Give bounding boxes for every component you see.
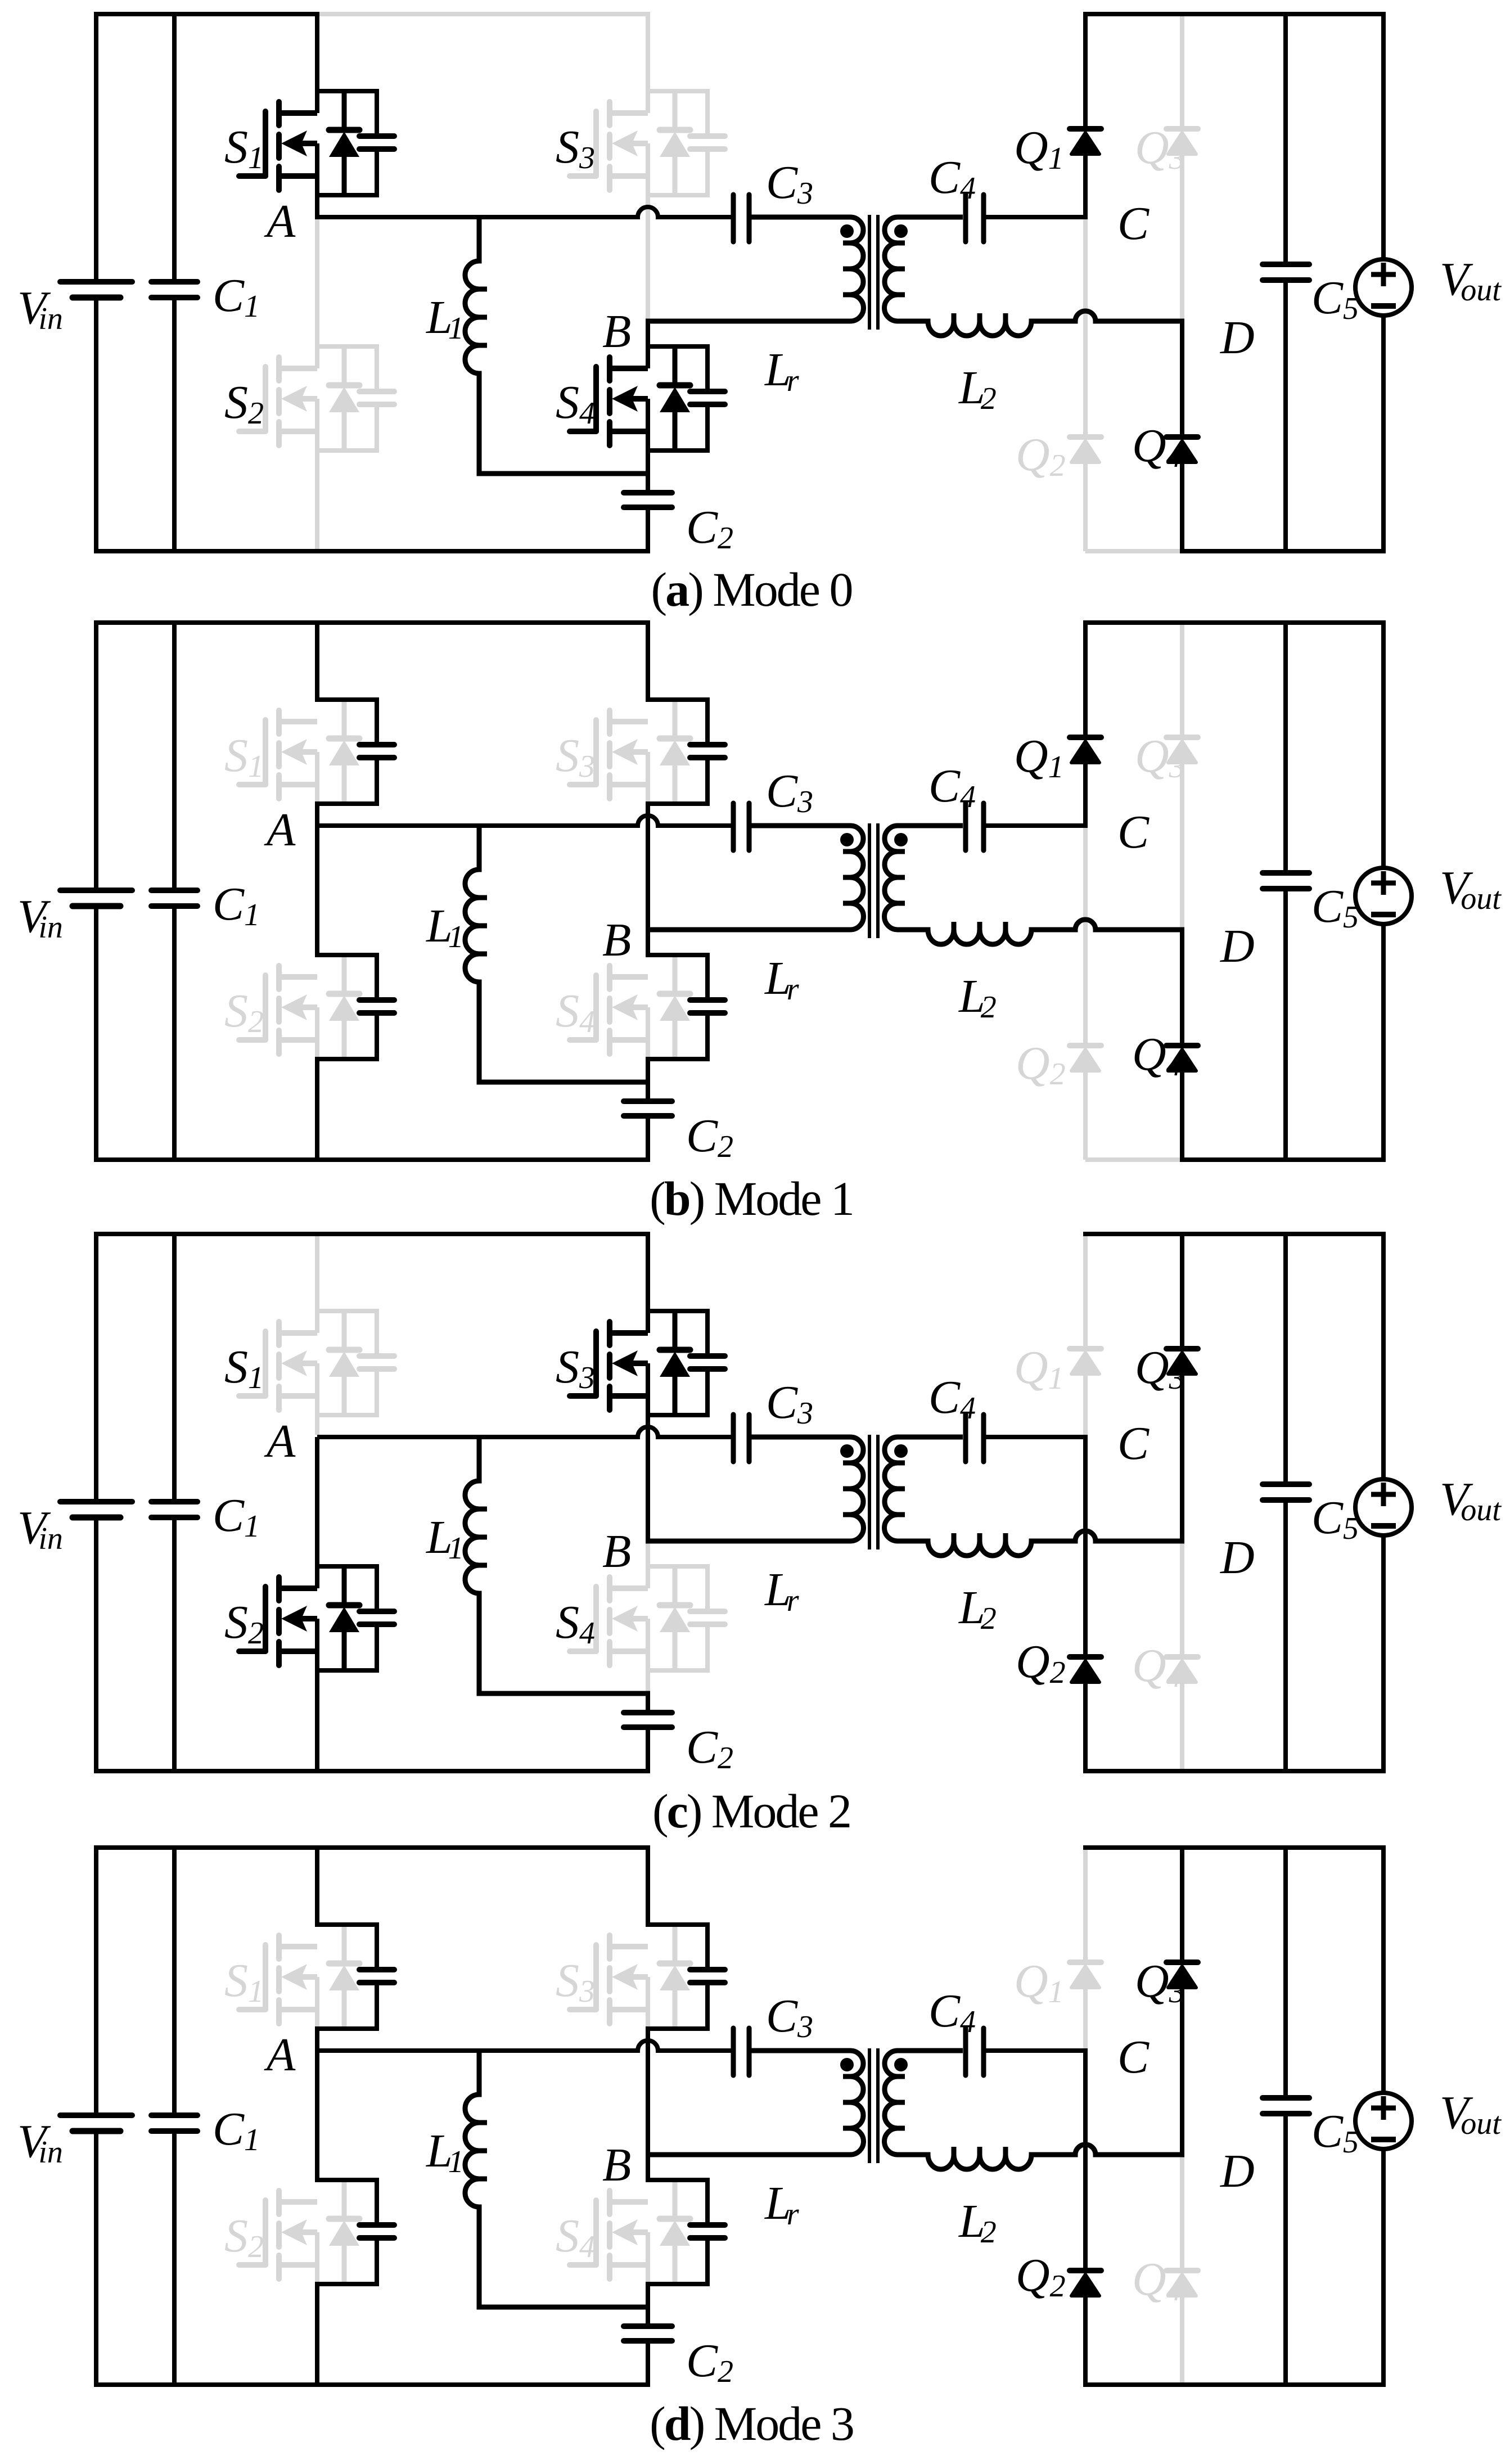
label S1 (mode 2)	[224, 1341, 264, 1395]
wire Vout branch (mode 0)	[1381, 12, 1386, 553]
svg-text:C: C	[1117, 2031, 1150, 2083]
transistor S2 channel (mode 0)	[279, 357, 317, 445]
transistor S3 channel (mode 2)	[610, 1322, 648, 1410]
wire Q3 leg (mode 1)	[1180, 623, 1184, 927]
svg-text:A: A	[264, 1415, 296, 1467]
transistor S3 gate (mode 3)	[570, 1945, 596, 2010]
label Q4 (mode 1)	[1132, 1028, 1182, 1083]
svg-text:D: D	[1220, 2145, 1255, 2197]
inductor L1 (mode 3)	[465, 2048, 650, 2307]
wire Q4 leg (mode 3)	[1180, 2157, 1184, 2387]
wire secondary bottom rail (mode 2)	[1083, 1769, 1386, 1773]
wire C4 to node C (mode 1)	[986, 823, 1088, 828]
label S4 (mode 0)	[556, 376, 595, 431]
diode Q4 (mode 1)	[1166, 1046, 1198, 1071]
inductor L2 and wire to node D with hop over Q leg (mode 3)	[898, 2145, 1184, 2169]
output capacitor frame of S3 (mode 0)	[646, 89, 725, 197]
wire C4 to node C (mode 3)	[986, 2048, 1088, 2053]
wire top rail (mode 2)	[94, 1232, 650, 1236]
label C3 (mode 0)	[766, 156, 813, 211]
diode Q3 (mode 2)	[1166, 1349, 1198, 1374]
wire top rail (mode 3)	[94, 1845, 650, 1850]
label C4 (mode 1)	[928, 760, 976, 814]
transistor S4 gate (mode 3)	[570, 2200, 596, 2265]
wire secondary top rail (mode 0)	[1083, 12, 1386, 16]
wire bottom rail (mode 3)	[94, 2382, 650, 2387]
wire bottom rail (mode 0)	[94, 549, 650, 553]
wire source leg of S2 (mode 3)	[315, 2284, 319, 2387]
label Lr (mode 2)	[764, 1564, 799, 1618]
label L1 (mode 0)	[426, 291, 464, 346]
label Vin (mode 3)	[17, 2115, 63, 2170]
wire bottom rail (mode 1)	[94, 1157, 650, 1162]
node B label (mode 1)	[602, 914, 631, 966]
transistor S1 channel (mode 2)	[279, 1322, 317, 1410]
capacitor C5 branch (mode 1)	[1263, 620, 1309, 1162]
transistor S3 gate (mode 0)	[570, 111, 596, 176]
capacitor C3 (mode 2)	[733, 1415, 749, 1462]
svg-text:B: B	[602, 914, 631, 966]
wire top rail (mode 1)	[94, 620, 650, 625]
body diode of S1 (mode 2)	[329, 1311, 359, 1415]
transistor S2 gate (mode 1)	[239, 975, 265, 1040]
capacitor C2 branch (mode 1)	[624, 1082, 672, 1162]
label S3 (mode 2)	[556, 1341, 595, 1395]
label Q2 (mode 1)	[1016, 1037, 1066, 1092]
transformer polarity dot primary (mode 1)	[840, 833, 854, 846]
wire secondary top rail (mode 1)	[1083, 620, 1386, 625]
transistor S1 channel (mode 0)	[279, 102, 317, 190]
label Q2 (mode 0)	[1016, 429, 1066, 483]
wire internal leg of S1 (gray) (mode 3)	[315, 1977, 319, 2029]
capacitor C1 (mode 2)	[151, 1502, 197, 1517]
transformer core (mode 3)	[869, 2048, 878, 2163]
wire Q3 leg (mode 3)	[1180, 1845, 1184, 2155]
label S4 (mode 3)	[556, 2210, 595, 2264]
capacitor C5 branch (mode 0)	[1263, 12, 1309, 553]
body diode of S4 (mode 0)	[660, 346, 690, 451]
label C2 (mode 1)	[686, 1110, 733, 1164]
label Lr (mode 0)	[764, 344, 799, 398]
transistor S3 channel (mode 3)	[610, 1935, 648, 2024]
label S1 (mode 1)	[224, 729, 264, 784]
node A label (mode 0)	[264, 195, 296, 247]
node D label (mode 3)	[1220, 2145, 1255, 2197]
output capacitor frame of S4 (mode 2)	[646, 1564, 725, 1673]
transformer primary winding and wire to node B (mode 0)	[646, 217, 863, 321]
transistor S4 gate (mode 0)	[570, 367, 596, 431]
transistor S2 gate (mode 3)	[239, 2200, 265, 2265]
diode Q3 (mode 3)	[1166, 1962, 1198, 1988]
wire drain leg of S2 (mode 1)	[315, 826, 319, 957]
label Vin (mode 0)	[17, 282, 63, 336]
output capacitor frame of S1 (mode 1)	[315, 697, 394, 806]
wire drain leg of S3 (gray) (mode 0)	[646, 12, 650, 113]
node C label (mode 1)	[1117, 806, 1150, 858]
label L2 (mode 1)	[958, 970, 997, 1025]
svg-text:D: D	[1220, 312, 1255, 364]
transformer polarity dot secondary (mode 0)	[894, 224, 908, 238]
inductor L2 and wire to node D with hop over Q leg (mode 1)	[898, 920, 1184, 944]
node A label (mode 2)	[264, 1415, 296, 1467]
diode Q1 (mode 0)	[1070, 129, 1101, 154]
node D label (mode 2)	[1220, 1531, 1255, 1584]
transformer core (mode 1)	[869, 823, 878, 938]
svg-text:(a) Mode 0: (a) Mode 0	[651, 562, 852, 616]
wire source leg of S4 (gray) (mode 2)	[646, 1619, 650, 1696]
wire drain leg of S2 (mode 3)	[315, 2051, 319, 2182]
wire source leg of S1 (mode 0)	[315, 143, 319, 219]
wire secondary bottom rail (mode 3)	[1083, 2382, 1386, 2387]
svg-text:(b) Mode 1: (b) Mode 1	[650, 1172, 853, 1226]
label S2 (mode 3)	[224, 2210, 264, 2264]
transformer polarity dot secondary (mode 3)	[894, 2058, 908, 2071]
svg-text:C: C	[1117, 197, 1150, 250]
node A label (mode 3)	[264, 2029, 296, 2081]
label L1 (mode 1)	[426, 900, 464, 954]
label Q1 (mode 0)	[1014, 121, 1064, 176]
wire C1 branch (mode 0)	[172, 12, 177, 553]
battery Vin (mode 2)	[60, 1502, 132, 1517]
wire drain leg of S3 (mode 1)	[646, 620, 650, 702]
wire Vout branch (mode 2)	[1381, 1232, 1386, 1773]
label S4 (mode 1)	[556, 985, 595, 1039]
diode Q2 (mode 2)	[1070, 1657, 1101, 1682]
inductor L1 (mode 2)	[465, 1435, 650, 1693]
transformer core (mode 0)	[869, 215, 878, 330]
source Vout (mode 3)	[1355, 2093, 1412, 2149]
label S2 (mode 1)	[224, 985, 264, 1039]
wire source leg of S3 (mode 1)	[646, 804, 650, 930]
wire secondary bottom link (gray) (mode 1)	[1085, 1157, 1182, 1162]
wire node A to C3 with hop over S3 leg (mode 3)	[317, 2040, 731, 2051]
label C1 (mode 2)	[213, 1489, 260, 1544]
wire Vin branch (mode 2)	[94, 1232, 98, 1773]
capacitor C3 (mode 1)	[733, 803, 749, 850]
svg-text:(d) Mode 3: (d) Mode 3	[650, 2397, 853, 2451]
capacitor C1 (mode 0)	[151, 282, 197, 298]
source Vout (mode 2)	[1355, 1479, 1412, 1535]
label Q2 (mode 2)	[1016, 1636, 1066, 1690]
caption (a) Mode 0 (mode 0)	[651, 562, 852, 616]
wire secondary bottom rail (mode 0)	[1180, 549, 1386, 553]
wire Q3 leg (mode 0)	[1180, 14, 1184, 319]
wire source leg of S3 (mode 3)	[646, 2029, 650, 2155]
body diode of S2 (mode 1)	[329, 955, 359, 1059]
wire drain leg of S4 (mode 0)	[646, 319, 650, 368]
source Vout (mode 1)	[1355, 868, 1412, 924]
wire secondary top rail (mode 2)	[1083, 1232, 1386, 1236]
wire drain leg of S1 (mode 1)	[315, 620, 319, 702]
label S3 (mode 1)	[556, 729, 595, 784]
transformer polarity dot primary (mode 0)	[840, 224, 854, 238]
label S2 (mode 0)	[224, 376, 264, 431]
transistor S3 channel (mode 0)	[610, 102, 648, 190]
transistor S2 gate (mode 2)	[239, 1587, 265, 1651]
caption (b) Mode 1 (mode 1)	[650, 1172, 853, 1226]
wire internal leg of S3 (gray) (mode 3)	[646, 1977, 650, 2029]
wire Vout branch (mode 3)	[1381, 1845, 1386, 2387]
transistor S2 channel (mode 2)	[279, 1577, 317, 1665]
transformer secondary winding and wire to C4 (mode 2)	[885, 1437, 963, 1541]
wire Q1 leg (mode 2)	[1083, 1232, 1088, 1435]
label C2 (mode 0)	[686, 501, 733, 556]
label Lr (mode 3)	[764, 2177, 799, 2232]
wire node A to C3 with hop over S3 leg (mode 1)	[317, 816, 731, 826]
svg-text:B: B	[602, 305, 631, 358]
wire drain leg of S4 (mode 3)	[646, 2152, 650, 2182]
capacitor C3 (mode 0)	[733, 195, 749, 242]
wire drain leg of S4 (gray) (mode 2)	[646, 1543, 650, 1588]
label L1 (mode 2)	[426, 1511, 464, 1566]
body diode of S2 (mode 2)	[329, 1566, 359, 1670]
diode Q2 (mode 1)	[1070, 1046, 1101, 1071]
label Q1 (mode 1)	[1014, 730, 1064, 785]
diode Q4 (mode 2)	[1166, 1657, 1198, 1682]
capacitor C3 (mode 3)	[733, 2028, 749, 2075]
body diode of S2 (mode 3)	[329, 2180, 359, 2284]
wire drain leg of S1 (mode 3)	[315, 1845, 319, 1927]
transistor S3 gate (mode 2)	[570, 1331, 596, 1396]
label C2 (mode 3)	[686, 2335, 733, 2389]
transistor S4 channel (mode 2)	[610, 1577, 648, 1665]
body diode of S4 (mode 3)	[660, 2180, 690, 2284]
label C5 (mode 0)	[1311, 272, 1359, 326]
capacitor C1 (mode 1)	[151, 890, 197, 906]
transistor S3 gate (mode 1)	[570, 720, 596, 785]
wire source leg of S3 (gray) (mode 0)	[646, 143, 650, 319]
label Q1 (mode 2)	[1014, 1341, 1064, 1396]
wire secondary bottom rail (mode 1)	[1180, 1157, 1386, 1162]
label Vout (mode 1)	[1440, 862, 1502, 916]
body diode of S3 (mode 0)	[660, 91, 690, 195]
capacitor C2 branch (mode 2)	[624, 1693, 672, 1773]
label Q2 (mode 3)	[1016, 2249, 1066, 2304]
label C4 (mode 2)	[928, 1371, 976, 1426]
body diode of S3 (mode 3)	[660, 1925, 690, 2029]
diode Q4 (mode 0)	[1166, 437, 1198, 462]
output capacitor frame of S4 (mode 1)	[646, 953, 725, 1061]
transistor S1 gate (mode 1)	[239, 720, 265, 785]
wire drain leg of S1 (mode 0)	[315, 12, 319, 113]
transistor S1 channel (mode 3)	[279, 1935, 317, 2024]
battery Vin (mode 0)	[60, 282, 132, 298]
wire Vin branch (mode 1)	[94, 620, 98, 1162]
svg-text:(c) Mode 2: (c) Mode 2	[652, 1784, 850, 1838]
svg-text:A: A	[264, 2029, 296, 2081]
label Q3 (mode 0)	[1135, 121, 1185, 176]
capacitor C2 branch (mode 0)	[624, 474, 672, 553]
node C label (mode 3)	[1117, 2031, 1150, 2083]
source Vout (mode 0)	[1355, 259, 1412, 316]
transformer polarity dot secondary (mode 1)	[894, 833, 908, 846]
body diode of S4 (mode 2)	[660, 1566, 690, 1670]
inductor L1 (mode 1)	[465, 823, 650, 1082]
transformer polarity dot primary (mode 3)	[840, 2058, 854, 2071]
output capacitor frame of S1 (mode 3)	[315, 1922, 394, 2031]
diode Q2 (mode 0)	[1070, 437, 1101, 462]
inductor L1 (mode 0)	[465, 215, 650, 474]
wire bottom rail (mode 2)	[94, 1769, 650, 1773]
label S4 (mode 2)	[556, 1596, 595, 1651]
label C1 (mode 3)	[213, 2103, 260, 2157]
wire C4 to node C (mode 2)	[986, 1435, 1088, 1439]
wire Q4 leg (mode 0)	[1180, 319, 1184, 553]
transistor S4 channel (mode 0)	[610, 357, 648, 445]
inductor L2 and wire to node D with hop over Q leg (mode 2)	[898, 1531, 1184, 1556]
label C3 (mode 1)	[766, 765, 813, 819]
label L2 (mode 0)	[958, 362, 997, 416]
label L1 (mode 3)	[426, 2125, 464, 2179]
label S1 (mode 0)	[224, 121, 264, 175]
transistor S2 channel (mode 3)	[279, 2191, 317, 2279]
svg-text:C: C	[1117, 1417, 1150, 1470]
svg-text:A: A	[264, 195, 296, 247]
body diode of S3 (mode 2)	[660, 1311, 690, 1415]
inductor L2 and wire to node D with hop over Q leg (mode 0)	[898, 311, 1184, 336]
wire source leg of S3 (mode 2)	[646, 1363, 650, 1541]
svg-text:D: D	[1220, 1531, 1255, 1584]
output capacitor frame of S1 (mode 0)	[315, 89, 394, 197]
wire internal leg of S3 (gray) (mode 1)	[646, 752, 650, 804]
wire Q2 leg (mode 0)	[1083, 219, 1088, 551]
wire internal leg of S1 (gray) (mode 1)	[315, 752, 319, 804]
wire C4 to node C (mode 0)	[986, 215, 1088, 219]
wire source leg of S4 (mode 0)	[646, 399, 650, 476]
transformer secondary winding and wire to C4 (mode 1)	[885, 826, 963, 930]
svg-text:C: C	[1117, 806, 1150, 858]
transistor S4 gate (mode 1)	[570, 975, 596, 1040]
diode Q1 (mode 1)	[1070, 737, 1101, 763]
caption (d) Mode 3 (mode 3)	[650, 2397, 853, 2451]
wire Q1 leg (mode 1)	[1083, 620, 1088, 828]
label Q4 (mode 3)	[1132, 2253, 1182, 2308]
node B label (mode 0)	[602, 305, 631, 358]
transformer primary winding and wire to node B (mode 1)	[646, 826, 863, 930]
node B label (mode 3)	[602, 2139, 631, 2191]
diode Q3 (mode 1)	[1166, 737, 1198, 763]
transistor S2 gate (mode 0)	[239, 367, 265, 431]
label Q3 (mode 1)	[1135, 730, 1185, 785]
transformer core (mode 2)	[869, 1435, 878, 1549]
transistor S1 gate (mode 3)	[239, 1945, 265, 2010]
output capacitor frame of S2 (mode 0)	[315, 344, 394, 453]
label C5 (mode 2)	[1311, 1492, 1359, 1546]
wire Vout branch (mode 1)	[1381, 620, 1386, 1162]
label L2 (mode 2)	[958, 1582, 997, 1636]
node D label (mode 0)	[1220, 312, 1255, 364]
node D label (mode 1)	[1220, 920, 1255, 972]
label Vout (mode 0)	[1440, 253, 1502, 308]
label S2 (mode 2)	[224, 1596, 264, 1651]
output capacitor frame of S2 (mode 1)	[315, 953, 394, 1061]
wire top rail (mode 0)	[94, 12, 319, 16]
label C5 (mode 3)	[1311, 2105, 1359, 2160]
label Q4 (mode 2)	[1132, 1639, 1182, 1694]
svg-text:D: D	[1220, 920, 1255, 972]
battery Vin (mode 3)	[60, 2115, 132, 2131]
label Vout (mode 3)	[1440, 2087, 1502, 2141]
transistor S1 gate (mode 2)	[239, 1331, 265, 1396]
wire internal leg of S4 (gray) (mode 1)	[646, 1007, 650, 1059]
battery Vin (mode 1)	[60, 890, 132, 906]
diode Q1 (mode 2)	[1070, 1349, 1101, 1374]
label Q3 (mode 2)	[1135, 1341, 1185, 1396]
transistor S1 channel (mode 1)	[279, 710, 317, 799]
capacitor C5 branch (mode 2)	[1263, 1232, 1309, 1773]
transformer primary winding and wire to node B (mode 3)	[646, 2051, 863, 2155]
label Q1 (mode 3)	[1014, 1955, 1064, 2010]
output capacitor frame of S3 (mode 1)	[646, 697, 725, 806]
output capacitor frame of S2 (mode 3)	[315, 2178, 394, 2286]
wire Q1 leg (mode 0)	[1083, 12, 1088, 219]
capacitor C4 (mode 2)	[966, 1415, 984, 1462]
svg-text:A: A	[264, 804, 296, 856]
label Vout (mode 2)	[1440, 1473, 1502, 1528]
wire drain leg of S2 (gray) (mode 0)	[315, 219, 319, 368]
wire drain leg of S2 (mode 2)	[315, 1437, 319, 1588]
label C3 (mode 3)	[766, 1990, 813, 2044]
body diode of S2 (mode 0)	[329, 346, 359, 451]
body diode of S1 (mode 1)	[329, 700, 359, 804]
transistor S2 channel (mode 1)	[279, 966, 317, 1054]
wire drain leg of S4 (mode 1)	[646, 927, 650, 957]
capacitor C4 (mode 0)	[966, 195, 984, 242]
wire secondary top rail (mode 3)	[1083, 1845, 1386, 1850]
body diode of S1 (mode 0)	[329, 91, 359, 195]
label C3 (mode 2)	[766, 1376, 813, 1431]
wire C1 branch (mode 3)	[172, 1845, 177, 2387]
wire internal leg of S4 (gray) (mode 3)	[646, 2232, 650, 2284]
wire source leg of S2 (mode 2)	[315, 1619, 319, 1773]
wire secondary bottom link (gray) (mode 0)	[1085, 549, 1182, 553]
transformer secondary winding and wire to C4 (mode 3)	[885, 2051, 963, 2155]
wire node A to C3 with hop over S3 leg (mode 0)	[317, 207, 731, 217]
wire Vin branch (mode 0)	[94, 12, 98, 553]
wire source leg of S1 (gray) (mode 2)	[315, 1363, 319, 1435]
wire node A to C3 with hop over S3 leg (mode 2)	[317, 1427, 731, 1437]
body diode of S4 (mode 1)	[660, 955, 690, 1059]
output capacitor frame of S3 (mode 3)	[646, 1922, 725, 2031]
label C4 (mode 3)	[928, 1985, 976, 2039]
output capacitor frame of S4 (mode 3)	[646, 2178, 725, 2286]
node C label (mode 2)	[1117, 1417, 1150, 1470]
wire Q3 leg (mode 2)	[1180, 1232, 1184, 1541]
label Q3 (mode 3)	[1135, 1955, 1185, 2010]
label S1 (mode 3)	[224, 1954, 264, 2009]
label C4 (mode 0)	[928, 151, 976, 206]
label C5 (mode 1)	[1311, 880, 1359, 935]
wire top rail gray segment (mode 0)	[317, 12, 650, 16]
wire Vin branch (mode 3)	[94, 1845, 98, 2387]
output capacitor frame of S4 (mode 0)	[646, 344, 725, 453]
transistor S4 channel (mode 1)	[610, 966, 648, 1054]
capacitor C4 (mode 3)	[966, 2028, 984, 2075]
wire source leg of S1 (mode 1)	[315, 804, 319, 828]
label C2 (mode 2)	[686, 1721, 733, 1776]
label C1 (mode 0)	[213, 269, 260, 324]
label Vin (mode 2)	[17, 1502, 63, 1556]
wire drain leg of S1 (gray) (mode 2)	[315, 1232, 319, 1333]
wire Q2 leg (mode 2)	[1083, 1437, 1088, 1773]
node A label (mode 1)	[264, 804, 296, 856]
body diode of S3 (mode 1)	[660, 700, 690, 804]
wire drain leg of S3 (mode 2)	[646, 1232, 650, 1333]
body diode of S1 (mode 3)	[329, 1925, 359, 2029]
label Vin (mode 1)	[17, 890, 63, 945]
svg-text:B: B	[602, 2139, 631, 2191]
label S3 (mode 0)	[556, 121, 595, 175]
